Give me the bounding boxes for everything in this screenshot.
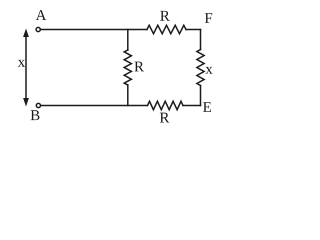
wire middle branch from top junction [127,30,129,51]
wire A to top resistor [41,29,147,31]
resistor R bottom horizontal [148,101,184,109]
label x of right resistor [205,67,212,74]
dimension arrow head top [23,29,29,38]
node B label [31,110,40,120]
label R of middle resistor [134,62,144,72]
node E label [203,102,211,112]
wire corner F down to right resistor [200,30,202,50]
resistor x right vertical [197,50,204,86]
wire right resistor down to corner E [200,86,202,106]
terminal A circle [36,27,40,31]
resistor R top horizontal [147,25,186,33]
wire middle branch to bottom junction [127,85,129,106]
label x of dimension arrow [18,60,25,67]
terminal B circle [36,103,40,107]
label R of bottom resistor [160,113,170,123]
wire B to bottom resistor [41,105,148,107]
node A label [36,10,47,20]
dimension arrow shaft between A and B [25,34,27,101]
resistor R middle vertical [124,50,131,85]
dimension arrow head bottom [23,98,29,107]
wire bottom resistor to corner E [183,105,201,107]
node F label [205,13,212,23]
wire top resistor to corner F [186,29,201,31]
label R of top resistor [160,11,170,21]
